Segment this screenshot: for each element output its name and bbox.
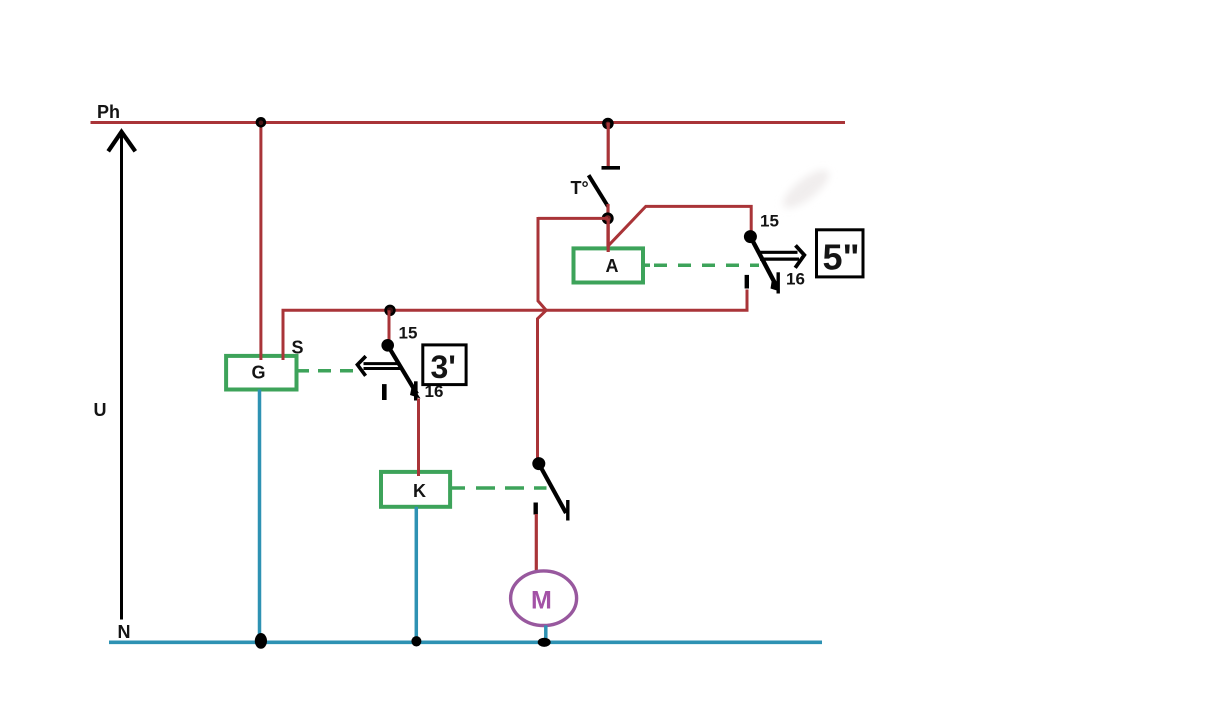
svg-text:N: N	[118, 622, 131, 642]
svg-text:5": 5"	[823, 236, 860, 277]
wire S terminal loop (G to timer contact 16)	[283, 290, 747, 359]
3' switch contact 15 dot	[381, 339, 394, 352]
green dashed link A to 5'' switch (stub)	[643, 263, 650, 267]
wire Ph to thermostat contact	[607, 123, 610, 167]
motor switch fixed contact tick	[534, 503, 538, 515]
timer coil A	[574, 248, 644, 282]
motor switch contact dot	[532, 457, 545, 470]
wire stub into G (from S)	[282, 354, 285, 361]
Ph bus wire	[91, 121, 846, 124]
timed-closing arrow (right) head	[795, 245, 804, 267]
wire node to K-switch branch	[538, 217, 608, 220]
5'' switch blade	[750, 237, 777, 288]
smudge artifact	[778, 164, 834, 214]
wire K coil to N	[415, 507, 419, 642]
junction node on N (motor)	[538, 638, 551, 647]
timed-opening arrow (left) head	[357, 356, 365, 376]
green dashed link G to 3' switch (stub)	[297, 369, 310, 373]
wire node into A coil	[607, 218, 610, 250]
wire node to contact 15 of 5'' switch	[608, 206, 751, 245]
green dashed link K to motor switch (stub)	[450, 486, 465, 490]
wire stub into K	[417, 469, 420, 476]
timer box 3'	[423, 345, 466, 385]
svg-text:Ph: Ph	[97, 102, 120, 122]
thermostat fixed contact bar	[602, 166, 621, 170]
U axis arrow shaft	[120, 132, 123, 620]
relay coil G	[226, 356, 296, 390]
green dashed link K to motor switch	[476, 486, 547, 490]
svg-text:K: K	[413, 481, 426, 501]
green dashed link A to 5'' switch	[654, 263, 759, 267]
wire Ph to G coil	[259, 123, 262, 360]
wire 3' switch to K coil	[417, 399, 420, 476]
svg-text:A: A	[606, 256, 619, 276]
wire G coil to N	[258, 390, 262, 643]
svg-text:T°: T°	[571, 178, 589, 198]
5'' switch blade end bar	[777, 272, 780, 293]
svg-text:U: U	[94, 400, 107, 420]
node ring dot	[603, 214, 612, 223]
svg-text:G: G	[252, 363, 266, 383]
5'' switch terminal 16 tick	[745, 275, 749, 289]
3' switch terminal 16 tick	[414, 381, 418, 400]
junction node on N (K)	[411, 636, 421, 646]
wire stub into A	[607, 244, 610, 252]
wire stub into G (from Ph)	[259, 354, 262, 361]
svg-text:3': 3'	[431, 349, 456, 385]
5'' switch blade tip	[771, 279, 781, 292]
motor switch blade end bar	[566, 500, 569, 521]
3' switch blade	[388, 345, 417, 394]
junction node on Ph (middle)	[602, 118, 614, 130]
5'' switch contact 15 dot	[744, 230, 757, 243]
U axis arrowhead	[108, 132, 135, 152]
relay coil K	[381, 472, 450, 507]
junction node on N (G)	[255, 633, 267, 649]
junction node on S wire	[386, 306, 395, 315]
svg-text:15: 15	[399, 324, 418, 343]
thermostat blade	[589, 175, 608, 206]
wire junction to 3' contact 15	[388, 310, 391, 342]
motor switch blade	[539, 464, 566, 513]
svg-text:16: 16	[786, 270, 805, 289]
motor M circle	[511, 571, 577, 626]
svg-text:15: 15	[760, 211, 779, 230]
wire motor to N	[544, 625, 548, 642]
timed-opening arrow (left) shafts	[364, 362, 400, 365]
fixed contact tick I	[382, 384, 387, 400]
junction node on Ph (left)	[256, 117, 267, 128]
timed-closing arrow (right) shafts	[758, 251, 798, 254]
green dashed link G to 3' switch	[318, 369, 357, 373]
wire branch down to motor switch with hop	[538, 217, 547, 460]
wire switch to motor	[535, 514, 538, 572]
3' switch blade tip	[410, 385, 421, 399]
wire blade to node	[606, 204, 609, 247]
timer box 5''	[817, 230, 864, 277]
N bus wire	[109, 640, 822, 644]
svg-text:M: M	[531, 587, 552, 615]
